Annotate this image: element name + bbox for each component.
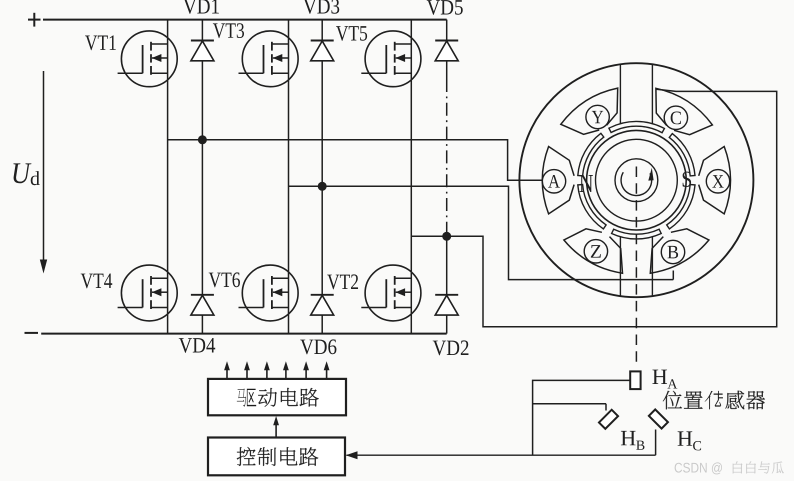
plus terminal (+) [28,13,41,27]
motor shaft circle [615,159,658,202]
label VD3 [303,0,339,14]
hall sensor HC [649,409,668,428]
rotor rotation arrow (ccw) [621,168,654,196]
node phase A junction [198,135,207,144]
wire leg VD5/VD2 vertical (partly dash-dot) [446,20,448,41]
diode VD3 [311,41,334,61]
transistor VT4 (N-MOSFET) [118,265,178,321]
wire leg VD1/VD4 vertical [201,20,203,41]
transistor VT5 (N-MOSFET) [361,31,421,87]
diode VD1 [191,41,214,61]
label Ud [13,163,31,183]
diode VD6 [311,295,334,315]
wire top DC rail (+) [43,19,447,21]
motor stator outer circle [519,63,753,297]
transistor VT3 (N-MOSFET) [239,31,299,87]
wire sensor bus to control box with arrow [346,451,656,459]
wire HC to bus [655,430,657,456]
rotor axis dashed center line [635,167,637,369]
node phase C junction [442,232,451,241]
label drive circuit (Chinese) [237,388,246,406]
label VD2 [433,340,469,355]
stator pole body top (12 o'clock) [620,64,652,123]
label VT4 [81,274,113,289]
label VD4 [179,338,215,353]
rotor pole label S [683,172,691,187]
transistor VT2 (N-MOSFET) [361,265,421,321]
stator winding coils with phase labels [542,88,730,273]
wire phase B tap [289,186,674,279]
hall sensor HA [630,371,640,389]
label VT6 [209,272,240,287]
hall sensor HB [599,410,618,429]
rotor pole label N [580,175,593,192]
wire HB to bus [533,403,606,405]
label HC [678,431,693,445]
label VD1 [183,0,219,14]
label position sensor (Chinese) [663,391,682,410]
label VT3 [213,23,244,38]
drive signal arrows (6) [224,361,329,379]
wire leg VT3/VT6 vertical [288,20,290,334]
Ud voltage arrow [40,71,47,274]
transistor VT6 (N-MOSFET) [239,265,299,321]
wire bottom DC rail (-) [41,333,447,335]
diode VD2 [435,295,458,315]
minus terminal (-) [25,332,39,334]
wire leg VT5/VT2 vertical [410,20,412,334]
label VT5 [336,26,367,41]
block control circuit box [208,438,345,476]
wire phase A tap [168,140,543,181]
label VD5 [427,0,463,15]
wire leg VD3/VD6 vertical [321,20,323,41]
label VT1 [85,35,116,50]
motor rotor circles [587,130,687,230]
label VD6 [300,339,336,354]
wire phase C tap loop [411,89,776,327]
label control circuit (Chinese) [237,447,256,466]
node phase B junction [318,182,327,191]
arrow control to drive [273,416,279,438]
wire HA to bus [533,380,631,455]
stator pole shoe arcs [578,121,695,239]
label VT2 [327,274,358,289]
block drive circuit box [208,379,346,415]
label HA [652,370,667,384]
stator pole body bottom (6 o'clock) [620,237,652,296]
watermark CSDN [675,462,722,474]
diode VD5 [435,41,458,61]
diode VD4 [191,295,214,315]
transistor VT1 (N-MOSFET) [118,31,178,87]
wire leg VT1/VT4 vertical [167,20,169,334]
label HB [621,431,636,445]
